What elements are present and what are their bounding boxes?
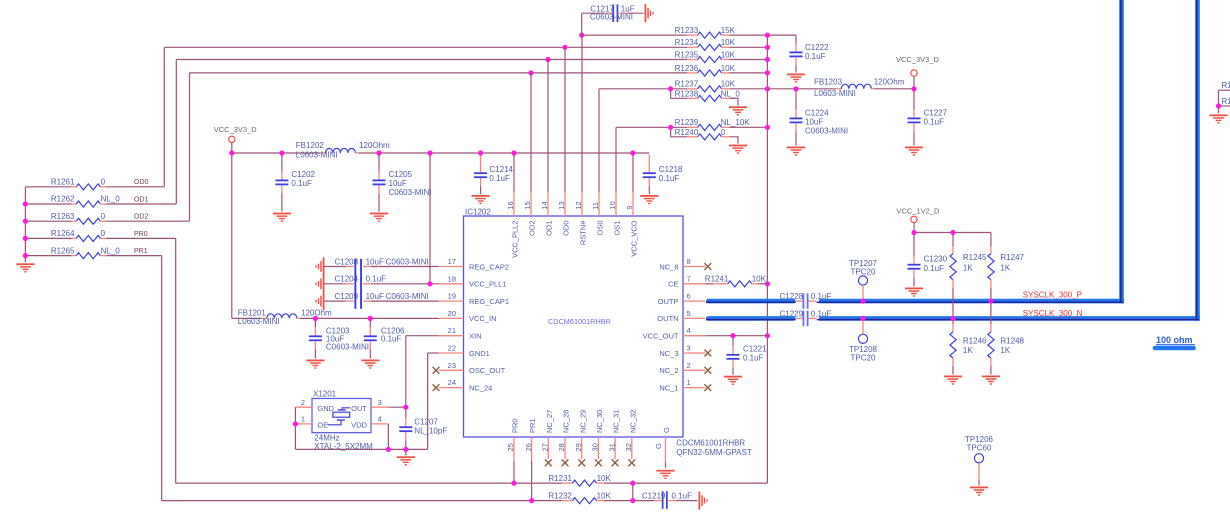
junction bbox=[545, 57, 550, 62]
ground C1227 bbox=[905, 147, 923, 156]
svg-text:10uF: 10uF bbox=[366, 292, 384, 301]
svg-text:R1239: R1239 bbox=[675, 118, 699, 127]
svg-text:R1265: R1265 bbox=[51, 246, 75, 255]
junction bbox=[529, 498, 534, 503]
svg-text:NC_28: NC_28 bbox=[562, 410, 571, 433]
svg-text:7: 7 bbox=[687, 274, 691, 283]
pin 30 NC_30 bbox=[591, 410, 604, 467]
svg-text:C1214: C1214 bbox=[489, 165, 513, 174]
wire pin10 riser bbox=[615, 127, 617, 192]
wire pullup bus vertical bbox=[766, 35, 768, 483]
svg-text:1K: 1K bbox=[963, 346, 973, 355]
svg-text:10uF: 10uF bbox=[389, 179, 407, 188]
svg-text:VCC_OUT: VCC_OUT bbox=[643, 332, 679, 341]
svg-text:R1241: R1241 bbox=[705, 275, 729, 284]
svg-text:25: 25 bbox=[506, 443, 515, 451]
pin 2 NC_2 bbox=[659, 361, 711, 375]
svg-text:R1262: R1262 bbox=[51, 195, 75, 204]
svg-text:18: 18 bbox=[448, 274, 456, 283]
svg-text:29: 29 bbox=[574, 443, 583, 451]
svg-text:120Ohm: 120Ohm bbox=[874, 78, 905, 87]
node PR1 bbox=[134, 248, 148, 255]
wire pin16 riser bbox=[513, 153, 515, 192]
svg-text:12: 12 bbox=[574, 201, 583, 209]
pin 22 GND1 bbox=[439, 344, 490, 358]
pin 28 NC_28 bbox=[557, 410, 570, 467]
junction bbox=[630, 498, 635, 503]
wire pin11 riser bbox=[598, 89, 600, 192]
svg-text:R1240: R1240 bbox=[675, 128, 699, 137]
junction bbox=[511, 481, 516, 486]
capacitor C1207 bbox=[399, 407, 447, 449]
junction bbox=[229, 150, 234, 155]
junction bbox=[279, 150, 284, 155]
junction bbox=[765, 33, 770, 38]
junction bbox=[950, 230, 955, 235]
svg-text:28: 28 bbox=[557, 443, 566, 451]
junction bbox=[403, 405, 408, 410]
svg-text:C0603-MINI: C0603-MINI bbox=[389, 188, 432, 197]
wire crystal left loop bbox=[294, 407, 296, 449]
svg-text:24: 24 bbox=[448, 378, 456, 387]
pin 18 VCC_PLL1 bbox=[439, 274, 507, 288]
svg-text:R1234: R1234 bbox=[675, 38, 699, 47]
capacitor C1222 bbox=[790, 35, 830, 72]
svg-text:R1237: R1237 bbox=[675, 80, 699, 89]
svg-text:0.1uF: 0.1uF bbox=[366, 275, 387, 284]
svg-text:20: 20 bbox=[448, 309, 456, 318]
svg-text:1K: 1K bbox=[963, 263, 973, 272]
ground left block bbox=[16, 263, 34, 272]
resistor R1246 bbox=[950, 321, 987, 375]
svg-text:10uF: 10uF bbox=[805, 117, 823, 126]
junction bbox=[668, 86, 673, 91]
svg-text:3: 3 bbox=[687, 344, 691, 353]
crystal pin 4 bbox=[371, 415, 388, 450]
svg-text:NC_29: NC_29 bbox=[578, 410, 587, 433]
svg-text:3: 3 bbox=[378, 398, 382, 407]
svg-text:VCC_PLL2: VCC_PLL2 bbox=[511, 221, 520, 259]
pin 13 OD0 bbox=[557, 192, 570, 236]
junction bbox=[765, 45, 770, 50]
resistor R1262 bbox=[25, 195, 176, 207]
svg-text:CDCM61001RHBR: CDCM61001RHBR bbox=[548, 317, 611, 326]
ground crystal bbox=[397, 449, 415, 465]
svg-text:10: 10 bbox=[608, 201, 617, 209]
junction bbox=[793, 86, 798, 91]
svg-text:NC_32: NC_32 bbox=[628, 410, 637, 433]
svg-text:1: 1 bbox=[301, 415, 305, 424]
svg-text:G: G bbox=[662, 427, 671, 433]
svg-text:OUTN: OUTN bbox=[657, 314, 678, 323]
svg-text:8: 8 bbox=[687, 257, 691, 266]
pin 7 CE bbox=[668, 274, 705, 288]
resistor R1263 bbox=[25, 212, 189, 224]
svg-text:16: 16 bbox=[506, 201, 515, 209]
svg-text:SYSCLK_300_N: SYSCLK_300_N bbox=[1023, 309, 1083, 318]
junction bbox=[911, 86, 916, 91]
junction bbox=[23, 201, 28, 206]
resistor R1237 bbox=[599, 80, 767, 92]
wire pin9 riser bbox=[632, 153, 634, 192]
svg-text:0.1uF: 0.1uF bbox=[924, 117, 945, 126]
crystal X1201 bbox=[312, 390, 373, 451]
svg-text:NL_0: NL_0 bbox=[101, 246, 121, 255]
svg-text:6: 6 bbox=[687, 292, 691, 301]
test point TP1208 bbox=[849, 321, 878, 363]
pin 23 OSC_OUT bbox=[433, 361, 506, 375]
svg-text:26: 26 bbox=[524, 443, 533, 451]
junction bbox=[765, 333, 770, 338]
node OD1 bbox=[134, 196, 149, 203]
ground C1222 bbox=[787, 74, 805, 83]
wire pin13 riser bbox=[564, 47, 566, 192]
svg-text:OD0: OD0 bbox=[562, 221, 571, 236]
capacitor C1208 bbox=[315, 257, 438, 275]
svg-text:14: 14 bbox=[540, 201, 549, 209]
capacitor C1218 bbox=[643, 155, 683, 195]
ground C1217 bbox=[645, 4, 654, 22]
junction bbox=[403, 447, 408, 452]
pin 29 NC_29 bbox=[574, 410, 587, 467]
svg-text:TP1206: TP1206 bbox=[965, 435, 994, 444]
capacitor C1209 bbox=[315, 292, 438, 310]
wire 1V2 rail bbox=[914, 232, 991, 234]
svg-text:PR1: PR1 bbox=[134, 248, 148, 255]
svg-text:10K: 10K bbox=[721, 38, 736, 47]
svg-text:OD1: OD1 bbox=[545, 221, 554, 236]
junction bbox=[579, 33, 584, 38]
wire OD0 riser bbox=[163, 47, 165, 187]
junction bbox=[1216, 103, 1221, 108]
resistor R1233 bbox=[582, 26, 796, 38]
ground R1240 bbox=[729, 145, 747, 154]
pin 24 NC_24 bbox=[433, 378, 493, 392]
capacitor C1206 bbox=[364, 318, 405, 358]
svg-text:10K: 10K bbox=[597, 492, 612, 501]
svg-text:0: 0 bbox=[721, 128, 726, 137]
junction bbox=[368, 316, 373, 321]
junction bbox=[478, 150, 483, 155]
svg-text:FB1202: FB1202 bbox=[296, 141, 325, 150]
svg-text:32: 32 bbox=[624, 443, 633, 451]
capacitor C1203 bbox=[309, 318, 369, 358]
svg-text:30: 30 bbox=[591, 443, 600, 451]
svg-text:PR1: PR1 bbox=[528, 418, 537, 433]
test point TP1206 bbox=[965, 435, 994, 486]
svg-text:IC1202: IC1202 bbox=[465, 207, 491, 216]
wire 3V3 rail bbox=[232, 152, 650, 154]
wire VCC_OUT bbox=[705, 335, 767, 337]
svg-text:C0603-MINI: C0603-MINI bbox=[590, 12, 633, 21]
svg-text:NC_8: NC_8 bbox=[659, 262, 678, 271]
svg-text:10K: 10K bbox=[721, 50, 736, 59]
svg-text:C1222: C1222 bbox=[805, 43, 829, 52]
svg-text:100 ohm: 100 ohm bbox=[1156, 335, 1193, 345]
svg-text:NC_31: NC_31 bbox=[612, 410, 621, 433]
svg-text:C0603-MINI: C0603-MINI bbox=[386, 257, 429, 266]
svg-text:C0603-MINI: C0603-MINI bbox=[805, 126, 848, 135]
pin 31 NC_31 bbox=[607, 410, 620, 467]
ground C1230 bbox=[905, 288, 923, 297]
svg-text:QFN32-5MM-GPAST: QFN32-5MM-GPAST bbox=[676, 448, 752, 457]
pin 4 VCC_OUT bbox=[643, 326, 706, 340]
junction bbox=[386, 447, 391, 452]
crystal pin 1 bbox=[295, 415, 312, 424]
resistor R1265 bbox=[25, 246, 161, 258]
wire R1231 R1232 tie bbox=[632, 483, 634, 501]
svg-text:10K: 10K bbox=[752, 275, 767, 284]
resistor R1232 bbox=[162, 492, 633, 504]
capacitor C1219 bbox=[633, 491, 698, 509]
ground R1246 bbox=[944, 376, 962, 385]
ground C1214 bbox=[472, 195, 490, 204]
svg-text:0.1uF: 0.1uF bbox=[659, 174, 680, 183]
wire XIN bbox=[406, 336, 439, 408]
resistor R1264 bbox=[25, 229, 175, 241]
capacitor C1221 bbox=[727, 336, 768, 375]
capacitor C1230 bbox=[908, 233, 948, 287]
svg-text:OUTP: OUTP bbox=[658, 297, 679, 306]
wire SYSCLK_300_P thick bbox=[706, 0, 1124, 303]
junction bbox=[511, 150, 516, 155]
pin 8 NC_8 bbox=[659, 257, 711, 271]
svg-text:PR0: PR0 bbox=[134, 231, 148, 238]
svg-text:OS1: OS1 bbox=[613, 221, 622, 236]
svg-text:0.1uF: 0.1uF bbox=[811, 310, 832, 319]
junction bbox=[313, 316, 318, 321]
svg-text:120Ohm: 120Ohm bbox=[359, 141, 390, 150]
capacitor C1227 bbox=[908, 89, 948, 146]
svg-text:OUT: OUT bbox=[351, 404, 367, 413]
junction bbox=[988, 299, 993, 304]
junction bbox=[860, 316, 865, 321]
svg-text:REG_CAP1: REG_CAP1 bbox=[469, 297, 509, 306]
resistor R1238 bbox=[671, 89, 741, 106]
svg-text:0: 0 bbox=[101, 212, 106, 221]
svg-text:VCC_IN: VCC_IN bbox=[469, 314, 497, 323]
svg-text:OE: OE bbox=[317, 421, 328, 430]
capacitor C1214 bbox=[474, 155, 513, 195]
svg-text:C1202: C1202 bbox=[291, 170, 315, 179]
ground R1248 bbox=[982, 376, 1000, 385]
node SYSCLK_300_N bbox=[1023, 309, 1083, 318]
test point TP1207 bbox=[849, 259, 878, 299]
svg-text:XIN: XIN bbox=[469, 332, 482, 341]
resistor R1236 bbox=[190, 64, 768, 76]
ground R1238 bbox=[729, 106, 747, 115]
svg-text:VDD: VDD bbox=[351, 421, 367, 430]
wire crystal ground rail bbox=[295, 448, 427, 450]
svg-text:11: 11 bbox=[591, 202, 600, 210]
svg-text:FB1203: FB1203 bbox=[814, 78, 843, 87]
junction bbox=[528, 70, 533, 75]
pin 19 REG_CAP1 bbox=[439, 292, 509, 306]
svg-text:OD2: OD2 bbox=[134, 214, 149, 221]
svg-text:R1246: R1246 bbox=[963, 337, 987, 346]
svg-text:27: 27 bbox=[541, 443, 550, 451]
junction bbox=[860, 299, 865, 304]
svg-text:R1232: R1232 bbox=[548, 492, 572, 501]
node OD0 bbox=[134, 179, 149, 186]
svg-text:R1245: R1245 bbox=[963, 253, 987, 262]
svg-text:5: 5 bbox=[687, 309, 691, 318]
svg-text:22: 22 bbox=[448, 344, 456, 353]
resistor R1243 partial bbox=[1219, 97, 1230, 106]
pin 15 OD2 bbox=[523, 192, 536, 236]
svg-text:C1205: C1205 bbox=[389, 170, 413, 179]
capacitor C1224 bbox=[790, 89, 849, 146]
resistor R1235 bbox=[176, 50, 767, 62]
wire pin26 to R1232 row bbox=[531, 461, 533, 500]
pin 32 NC_32 bbox=[624, 410, 637, 467]
svg-text:9: 9 bbox=[625, 206, 634, 210]
svg-text:1K: 1K bbox=[1000, 346, 1010, 355]
svg-text:TPC60: TPC60 bbox=[967, 444, 992, 453]
resistor R1231 bbox=[176, 474, 768, 486]
svg-text:NL_10pF: NL_10pF bbox=[414, 426, 447, 435]
svg-text:TP1207: TP1207 bbox=[849, 259, 878, 268]
svg-text:VCC_3V3_D: VCC_3V3_D bbox=[896, 55, 940, 64]
svg-text:4: 4 bbox=[378, 415, 382, 424]
power VCC_3V3_D left bbox=[214, 125, 258, 153]
svg-text:R1247: R1247 bbox=[1000, 253, 1024, 262]
ground C1219 bbox=[699, 492, 708, 510]
svg-text:21: 21 bbox=[448, 326, 456, 335]
svg-text:RSTN#: RSTN# bbox=[579, 220, 588, 245]
svg-text:0.1uF: 0.1uF bbox=[291, 179, 312, 188]
power VCC_1V2_D bbox=[897, 207, 941, 233]
wire pin25 to R1231 row bbox=[513, 461, 515, 483]
wire SYSCLK_300_N thick bbox=[706, 0, 1200, 321]
svg-text:19: 19 bbox=[448, 292, 456, 301]
node PR0 bbox=[134, 231, 148, 238]
crystal pin 3 bbox=[371, 398, 406, 407]
pin 1 NC_1 bbox=[659, 378, 711, 392]
wire 3V3 to VCC_PLL1 bbox=[429, 153, 431, 284]
inductor FB1203 bbox=[767, 78, 914, 98]
resistor R1240 bbox=[671, 127, 738, 144]
svg-text:GND: GND bbox=[317, 404, 334, 413]
junction bbox=[23, 236, 28, 241]
svg-text:R1248: R1248 bbox=[1000, 337, 1024, 346]
capacitor C1217 bbox=[582, 4, 644, 35]
svg-text:L0603-MINI: L0603-MINI bbox=[238, 317, 280, 326]
wire PR0 riser bbox=[175, 238, 177, 483]
svg-text:OD0: OD0 bbox=[134, 179, 149, 186]
svg-text:2: 2 bbox=[301, 398, 305, 407]
svg-text:1K: 1K bbox=[1000, 263, 1010, 272]
svg-text:10K: 10K bbox=[721, 64, 736, 73]
pin 17 REG_CAP2 bbox=[439, 257, 509, 271]
label 100 ohm bbox=[1155, 335, 1195, 348]
wire GND1 bbox=[428, 353, 439, 449]
junction bbox=[730, 333, 735, 338]
wire right edge tie bbox=[1218, 90, 1220, 113]
inductor FB1202 bbox=[296, 141, 390, 160]
pin 14 OD1 bbox=[540, 192, 553, 236]
junction bbox=[765, 70, 770, 75]
svg-text:R1263: R1263 bbox=[51, 212, 75, 221]
svg-text:0.1uF: 0.1uF bbox=[672, 492, 693, 501]
capacitor C1204 bbox=[315, 275, 438, 293]
svg-text:R1261: R1261 bbox=[51, 178, 75, 187]
svg-text:C1229: C1229 bbox=[780, 310, 804, 319]
resistor R1261 bbox=[25, 178, 164, 190]
svg-text:C1228: C1228 bbox=[780, 292, 804, 301]
junction bbox=[562, 45, 567, 50]
resistor R1242 partial bbox=[1219, 81, 1230, 90]
svg-text:NC_30: NC_30 bbox=[595, 410, 604, 433]
svg-text:1: 1 bbox=[687, 378, 691, 387]
svg-text:L0603-MINI: L0603-MINI bbox=[814, 89, 856, 98]
svg-text:R12: R12 bbox=[1222, 81, 1230, 90]
pin 10 OS1 bbox=[608, 192, 621, 236]
svg-text:NC_1: NC_1 bbox=[659, 383, 678, 392]
resistor R1247 bbox=[988, 233, 1025, 302]
wire OD2 riser bbox=[189, 73, 191, 221]
svg-text:R1238: R1238 bbox=[675, 89, 699, 98]
svg-text:OSC_OUT: OSC_OUT bbox=[469, 366, 506, 375]
svg-text:VCC_1V2_D: VCC_1V2_D bbox=[897, 207, 941, 216]
junction bbox=[765, 86, 770, 91]
resistor R1245 bbox=[950, 233, 987, 319]
resistor R1239 bbox=[616, 118, 767, 130]
ground C1202 bbox=[273, 213, 291, 222]
ground C1221 bbox=[724, 376, 742, 385]
inductor FB1201 bbox=[232, 308, 439, 326]
svg-text:R1233: R1233 bbox=[675, 26, 699, 35]
svg-text:13: 13 bbox=[557, 201, 566, 209]
wire left ground bus vertical bbox=[24, 187, 26, 262]
capacitor C1202 bbox=[275, 153, 315, 212]
svg-text:NC_3: NC_3 bbox=[659, 349, 678, 358]
svg-text:0: 0 bbox=[101, 178, 106, 187]
pin 20 VCC_IN bbox=[439, 309, 497, 323]
svg-text:VCC_3V3_D: VCC_3V3_D bbox=[214, 125, 258, 134]
svg-text:0.1uF: 0.1uF bbox=[489, 174, 510, 183]
svg-text:C1219: C1219 bbox=[642, 492, 666, 501]
svg-text:CDCM61001RHBR: CDCM61001RHBR bbox=[676, 439, 745, 448]
junction bbox=[23, 219, 28, 224]
ground C1206 bbox=[361, 360, 379, 369]
pin 12 RSTN# bbox=[574, 192, 587, 245]
svg-text:PR0: PR0 bbox=[511, 418, 520, 433]
wire pin12 riser bbox=[581, 35, 583, 192]
svg-text:0.1uF: 0.1uF bbox=[811, 292, 832, 301]
svg-text:0.1uF: 0.1uF bbox=[381, 335, 402, 344]
junction bbox=[911, 230, 916, 235]
ground C1218 bbox=[640, 195, 658, 204]
capacitor plates C1208 C1204 C1209 bbox=[354, 259, 362, 309]
svg-text:0: 0 bbox=[101, 229, 106, 238]
svg-text:17: 17 bbox=[448, 257, 456, 266]
svg-text:NL_0: NL_0 bbox=[101, 195, 121, 204]
junction bbox=[427, 281, 432, 286]
power VCC_3V3_D right bbox=[896, 55, 940, 89]
svg-text:OD2: OD2 bbox=[528, 221, 537, 236]
junction bbox=[765, 57, 770, 62]
wire pin14 riser bbox=[547, 60, 549, 193]
resistor R1234 bbox=[164, 38, 767, 50]
svg-text:C1218: C1218 bbox=[659, 165, 683, 174]
svg-text:NC_27: NC_27 bbox=[545, 410, 554, 433]
svg-text:10K: 10K bbox=[597, 474, 612, 483]
svg-text:31: 31 bbox=[607, 443, 616, 451]
pin 21 XIN bbox=[439, 326, 482, 340]
node SYSCLK_300_P bbox=[1023, 291, 1082, 300]
svg-text:NC_24: NC_24 bbox=[469, 383, 492, 392]
